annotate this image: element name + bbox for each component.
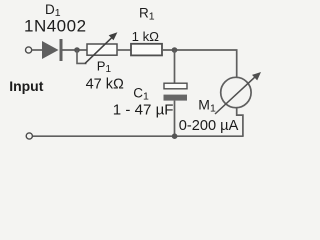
svg-text:Input: Input (9, 78, 44, 94)
meter M1 needle arrow (215, 72, 261, 114)
capacitor C1 bottom plate (164, 95, 188, 101)
wire capacitor to bottom rail (174, 101, 176, 137)
input terminal (bottom) (26, 133, 32, 139)
junction node at capacitor top (172, 47, 178, 53)
meter M1 circle (221, 77, 251, 107)
wire junction to capacitor (174, 50, 176, 83)
wire R1 to meter corner (162, 50, 237, 78)
svg-text:1N4002: 1N4002 (24, 16, 87, 35)
wire junction to wiper (77, 50, 87, 63)
potentiometer P1 body (87, 44, 117, 55)
wire P1 to R1 (117, 49, 132, 51)
bottom rail wire (32, 135, 243, 137)
diode D1 (42, 39, 63, 61)
junction node on bottom rail (172, 133, 178, 139)
svg-text:47 kΩ: 47 kΩ (86, 77, 124, 93)
wire diode to P1 (63, 49, 88, 51)
svg-text:0-200 µA: 0-200 µA (179, 118, 239, 134)
potentiometer P1 wiper arrow (85, 32, 118, 63)
svg-text:1 - 47 µF: 1 - 47 µF (113, 102, 174, 119)
wire meter to bottom rail (jogged) (237, 108, 243, 137)
resistor R1 body (131, 44, 162, 56)
junction node after diode (74, 47, 80, 53)
wire terminal to diode (32, 49, 42, 51)
input terminal (top) (26, 47, 32, 53)
capacitor C1 top plate (164, 83, 187, 89)
svg-text:1 kΩ: 1 kΩ (132, 29, 160, 44)
